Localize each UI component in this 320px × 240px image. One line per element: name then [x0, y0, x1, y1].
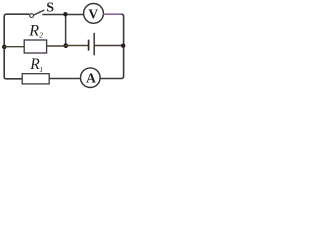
svg-text:R: R	[28, 22, 39, 39]
svg-text:V: V	[88, 7, 98, 22]
svg-text:A: A	[86, 71, 96, 86]
svg-text:1: 1	[39, 65, 43, 74]
svg-text:2: 2	[39, 30, 43, 39]
svg-text:S: S	[46, 1, 54, 16]
